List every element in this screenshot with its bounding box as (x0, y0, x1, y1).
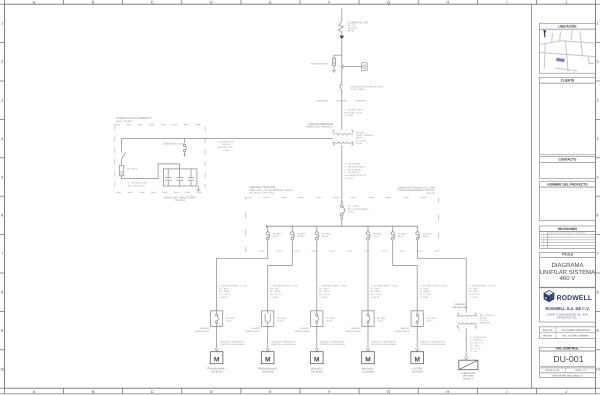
wire fuse to capacitor bank (122, 164, 180, 179)
svg-text:CABLES AL TABLERO DE: CABLES AL TABLERO DE (271, 340, 296, 343)
svg-text:BREAKER, 100 A: BREAKER, 100 A (163, 142, 184, 145)
svg-text:TABLERO: TABLERO (251, 327, 261, 330)
svg-text:3 - 500 KCM THW-LS: 3 - 500 KCM THW-LS (345, 165, 367, 168)
svg-text:6: 6 (597, 213, 599, 218)
svg-text:5: 5 (1, 174, 3, 179)
svg-text:DELTA - Y: DELTA - Y (356, 137, 367, 140)
svg-text:35 KA: 35 KA (373, 235, 379, 238)
wire branch to lightning arrester (334, 55, 342, 58)
title block section revisiones (539, 226, 595, 232)
svg-text:3 - 1/0 AWG, 15 KV: 3 - 1/0 AWG, 15 KV (128, 182, 148, 185)
svg-text:2: 2 (543, 237, 544, 240)
svg-text:L = 6 M: L = 6 M (470, 350, 477, 353)
svg-text:4: 4 (1, 136, 4, 141)
svg-text:CONTROL A LA MAQUINA: CONTROL A LA MAQUINA (420, 343, 446, 346)
feeder breaker CB-2 (291, 226, 293, 231)
svg-text:DV = 1.2 %: DV = 1.2 % (419, 293, 430, 296)
svg-text:J: J (565, 0, 567, 5)
svg-text:50 KVA: 50 KVA (480, 317, 488, 320)
main breaker 52-1 (341, 200, 343, 204)
svg-text:156.38 KW: 156.38 KW (311, 371, 324, 374)
svg-text:TIPO DE ARCHIVO: ARCH. A: TIPO DE ARCHIVO: ARCH. A (552, 374, 583, 377)
svg-text:220/127 V: 220/127 V (463, 378, 474, 381)
starter contactor symbol 2 (267, 311, 269, 313)
svg-text:UBICACIÓN: UBICACIÓN (558, 25, 577, 29)
flow arrow down (340, 36, 345, 40)
svg-text:ACOMETIDA CFE: ACOMETIDA CFE (348, 21, 369, 24)
svg-text:L = 50 M: L = 50 M (219, 296, 228, 299)
motor starter box 4 (362, 311, 374, 327)
svg-text:13,200 V: 13,200 V (348, 27, 358, 30)
svg-text:60 HZ: 60 HZ (356, 142, 363, 145)
svg-text:B: B (92, 389, 95, 394)
svg-text:HOJA: 1/1: HOJA: 1/1 (575, 369, 586, 372)
svg-text:L = 50 M: L = 50 M (319, 296, 328, 299)
wire feeder 5 jog (393, 240, 418, 311)
welder transformer T2 (458, 313, 459, 316)
title block divider line (530, 4, 532, 388)
svg-text:1 - 2/0 AWG (T): 1 - 2/0 AWG (T) (345, 171, 361, 174)
svg-text:M: M (214, 357, 220, 364)
logo box (539, 288, 595, 322)
feeder breaker CB-4 (367, 226, 369, 231)
svg-text:INT. 400 A: INT. 400 A (127, 167, 138, 170)
svg-text:NEMA 3R: NEMA 3R (480, 322, 490, 325)
svg-text:7: 7 (597, 251, 599, 256)
svg-text:REVISIONES: REVISIONES (558, 227, 578, 231)
svg-text:M: M (365, 357, 371, 364)
svg-text:3: 3 (543, 240, 544, 243)
svg-text:D: D (210, 389, 213, 394)
wire to motor 4 (367, 326, 369, 348)
svg-text:TABLERO: TABLERO (300, 327, 310, 330)
svg-text:1 - 250 KCM (N): 1 - 250 KCM (N) (345, 168, 361, 171)
svg-text:CABLES AL TABLERO DE: CABLES AL TABLERO DE (371, 340, 396, 343)
svg-text:RODWELL S.A. DE C.V.: RODWELL S.A. DE C.V. (545, 306, 589, 311)
svg-text:3 - 10 AWG, 5 KV: 3 - 10 AWG, 5 KV (217, 140, 235, 143)
wire secondary riser (341, 145, 343, 199)
svg-text:35 KA: 35 KA (298, 235, 304, 238)
wire subestacion to transformer (122, 138, 334, 140)
svg-text:D: D (210, 0, 213, 5)
svg-text:APODACA, N.L.: APODACA, N.L. (557, 316, 578, 320)
map location pin (543, 30, 546, 38)
svg-text:2: 2 (597, 59, 599, 64)
wire branch to utility meter (342, 66, 362, 68)
svg-text:9: 9 (597, 328, 599, 333)
svg-text:3: 3 (1, 98, 3, 103)
svg-text:CREACION DE DOCUMENTO - ABR/20: CREACION DE DOCUMENTO - ABR/2023 (549, 232, 585, 235)
svg-text:CU - 90 C: CU - 90 C (270, 287, 280, 290)
svg-text:TABLERO: TABLERO (400, 327, 410, 330)
wire main medium-voltage riser (341, 39, 343, 84)
feeder breaker CB-6 (417, 226, 419, 231)
svg-text:OFICINAS: OFICINAS (463, 375, 474, 378)
svg-text:3 - 8 AWG THWN + 1-10 (T): 3 - 8 AWG THWN + 1-10 (T) (469, 285, 497, 288)
scale and sheet row (539, 368, 595, 373)
wire to motor 2 (267, 326, 269, 348)
wire (121, 139, 123, 153)
svg-text:3 - 3/0 AWG THWN + 1-8 (T): 3 - 3/0 AWG THWN + 1-8 (T) (219, 285, 247, 288)
svg-text:G: G (387, 389, 390, 394)
svg-text:4: 4 (597, 136, 600, 141)
arrow to motor 3 (315, 348, 319, 351)
svg-text:E: E (269, 0, 272, 5)
svg-text:A: A (33, 389, 36, 394)
svg-text:DV = 1.2 %: DV = 1.2 % (319, 293, 330, 296)
svg-text:ALEJANDRO RODRIGUEZ: ALEJANDRO RODRIGUEZ (562, 329, 591, 332)
svg-text:6: 6 (1, 213, 3, 218)
starter breaker symbol 5 (416, 311, 418, 314)
svg-text:PROPIEDAD RODWELL: PROPIEDAD RODWELL (306, 126, 333, 129)
motor starter box 5 (411, 311, 423, 327)
svg-text:35 KA: 35 KA (322, 235, 328, 238)
svg-text:480 - 220/127 V: 480 - 220/127 V (480, 314, 496, 317)
capacitor cell at x=168.2 (167, 169, 169, 178)
svg-text:CU - 90 C: CU - 90 C (219, 287, 229, 290)
svg-text:H: H (446, 389, 449, 394)
svg-text:L = 8 M: L = 8 M (222, 149, 229, 152)
svg-text:ID = 196 A: ID = 196 A (319, 290, 330, 293)
motor M3 (311, 352, 324, 364)
starter breaker symbol 1 (216, 311, 218, 314)
arrow to motor 5 (415, 348, 419, 351)
svg-text:ARRANCADOR: ARRANCADOR (346, 330, 361, 333)
svg-text:3: 3 (597, 98, 599, 103)
svg-text:5: 5 (543, 246, 544, 249)
svg-text:150 KVAR: 150 KVAR (175, 199, 186, 202)
svg-text:15 KV - 400 A: 15 KV - 400 A (350, 88, 365, 91)
svg-text:CU - 90 C: CU - 90 C (469, 287, 479, 290)
motor M1 (210, 352, 223, 364)
wire welder secondary (465, 328, 467, 357)
svg-text:3F-350 A: 3F-350 A (298, 232, 307, 235)
svg-text:CUCHILLAS GRUPO 3F, 600 A: CUCHILLAS GRUPO 3F, 600 A (350, 85, 384, 88)
arrow to welder panel (464, 357, 468, 360)
svg-text:J: J (565, 389, 567, 394)
svg-text:1 - 8 AWG (T): 1 - 8 AWG (T) (470, 339, 483, 342)
svg-text:32 KA: 32 KA (427, 320, 433, 323)
feeder breaker CB-1 (267, 226, 269, 231)
svg-text:2: 2 (1, 59, 3, 64)
starter breaker symbol 4 (367, 311, 369, 314)
svg-text:ARRANCADOR: ARRANCADOR (195, 330, 210, 333)
svg-text:L = 10 M: L = 10 M (345, 177, 354, 180)
svg-text:CLIENTE: CLIENTE (561, 79, 575, 83)
svg-text:32 KA: 32 KA (326, 320, 332, 323)
svg-text:3 - 1/0 AWG, 15 KV: 3 - 1/0 AWG, 15 KV (344, 109, 364, 112)
svg-text:ID = 196 A: ID = 196 A (370, 290, 381, 293)
svg-text:CABLES AL TABLERO DE: CABLES AL TABLERO DE (220, 340, 245, 343)
svg-text:7: 7 (1, 251, 3, 256)
svg-text:RODWELL S.A. DE C.V.: RODWELL S.A. DE C.V. (556, 341, 579, 344)
svg-text:93.75 KW: 93.75 KW (412, 371, 423, 374)
svg-text:L = 42 M: L = 42 M (469, 296, 478, 299)
breaker CB-C for capacitors (184, 139, 186, 144)
svg-text:35 KA: 35 KA (273, 235, 279, 238)
ground for capacitor bank (197, 186, 199, 189)
title block section cliente (539, 77, 595, 83)
motor M5 (411, 352, 424, 364)
svg-text:32 KA: 32 KA (377, 320, 383, 323)
utility source zigzag symbol (339, 21, 344, 32)
arrow to motor 2 (266, 348, 270, 351)
main bus 480V (267, 225, 418, 227)
svg-text:CU - 90 C: CU - 90 C (470, 344, 480, 347)
title block section nombre del proyecto (539, 181, 595, 187)
svg-text:60 HZ: 60 HZ (348, 30, 355, 33)
svg-text:3 - 3/0 AWG THWN + 1-8 (T): 3 - 3/0 AWG THWN + 1-8 (T) (419, 285, 447, 288)
svg-text:TABLERO DE: TABLERO DE (461, 372, 476, 375)
feeder breaker CB-5 (392, 226, 394, 231)
arrow to motor 1 (215, 348, 219, 351)
svg-text:156.38 KW: 156.38 KW (262, 371, 275, 374)
svg-text:8: 8 (597, 290, 599, 295)
svg-text:CONTROL A LA MAQUINA: CONTROL A LA MAQUINA (271, 343, 297, 346)
svg-text:1: 1 (1, 21, 3, 26)
svg-text:ID = 196 A: ID = 196 A (419, 290, 430, 293)
svg-text:CABLES AL TABLERO DE: CABLES AL TABLERO DE (420, 340, 445, 343)
map highlighted lot (556, 58, 565, 62)
svg-text:10: 10 (595, 366, 600, 371)
capacitor cell at x=191.0 (190, 169, 192, 178)
wire incoming service drop (341, 8, 343, 21)
rodwell logo cube icon (544, 290, 554, 301)
svg-text:3F-350 A: 3F-350 A (322, 232, 331, 235)
svg-text:I: I (506, 389, 507, 394)
welder distribution box (459, 360, 478, 370)
svg-text:L = 12 M: L = 12 M (344, 114, 353, 117)
svg-text:INT. ELECTRONICO: INT. ELECTRONICO (348, 208, 369, 211)
transformer T1 (333, 130, 335, 134)
svg-text:DIAGRAMA: DIAGRAMA (551, 262, 583, 269)
motor starter box 3 (311, 311, 323, 327)
svg-text:F.D. 0.8: F.D. 0.8 (426, 192, 435, 195)
wire feeder 1 jog (217, 240, 268, 311)
svg-text:CU - 90 C: CU - 90 C (419, 287, 429, 290)
signature table (539, 327, 595, 339)
motor starter box 1 (211, 311, 223, 327)
title block section contacto (539, 156, 595, 162)
svg-text:EN TUB. 1 1/4: EN TUB. 1 1/4 (470, 342, 484, 345)
svg-text:0: 0 (543, 232, 544, 235)
svg-text:CONTROL A LA MAQUINA: CONTROL A LA MAQUINA (320, 343, 346, 346)
svg-text:BALA 750 KVA: BALA 750 KVA (117, 120, 133, 123)
capacitor cell at x=179.6 (179, 169, 181, 178)
svg-text:8: 8 (1, 290, 3, 295)
svg-text:DV = 1.1 %: DV = 1.1 % (470, 347, 481, 350)
CT bracket at meter tap (342, 65, 343, 69)
wire to motor 1 (216, 326, 218, 348)
revisions table (539, 232, 595, 249)
svg-text:750 KVA: 750 KVA (356, 131, 365, 134)
svg-text:ESCALA: N/A: ESCALA: N/A (545, 369, 560, 372)
wire (341, 32, 343, 36)
svg-text:35 KA: 35 KA (398, 235, 404, 238)
svg-text:3 - 3/0 AWG THWN + 1-8 (T): 3 - 3/0 AWG THWN + 1-8 (T) (370, 285, 398, 288)
svg-text:460 V: 460 V (560, 275, 576, 282)
svg-text:UNIFILAR SISTEMA: UNIFILAR SISTEMA (540, 269, 595, 276)
lightning arrester LA1 (333, 58, 336, 66)
svg-text:3F-350 A: 3F-350 A (273, 232, 282, 235)
svg-text:4: 4 (543, 243, 544, 246)
svg-text:DV = 0.9 %: DV = 0.9 % (469, 293, 480, 296)
svg-text:Z = 5.75 %: Z = 5.75 % (356, 139, 367, 142)
svg-text:35 KA: 35 KA (423, 235, 429, 238)
svg-text:2 - JUEGOS DE:: 2 - JUEGOS DE: (345, 163, 362, 166)
svg-text:L = 50 M: L = 50 M (419, 296, 428, 299)
switch blade (122, 153, 126, 159)
drawing title text (540, 262, 595, 282)
svg-text:B: B (92, 0, 95, 5)
starter breaker symbol 3 (316, 311, 318, 314)
svg-text:L = 50 M: L = 50 M (370, 296, 379, 299)
svg-text:CABLES AL TABLERO DE: CABLES AL TABLERO DE (320, 340, 345, 343)
disconnect switch cuchillas (341, 84, 342, 85)
tablero principal dashed enclosure (246, 198, 439, 252)
motor M4 (362, 352, 375, 364)
title block section ubicacion (539, 23, 595, 29)
svg-text:3 - 2 AWG THWN: 3 - 2 AWG THWN (470, 336, 487, 339)
svg-text:5: 5 (597, 174, 599, 179)
svg-text:1: 1 (543, 235, 544, 238)
svg-text:13200 - 460/265 V: 13200 - 460/265 V (356, 134, 375, 137)
svg-text:H: H (446, 0, 449, 5)
svg-text:DV = 1.2 %: DV = 1.2 % (370, 293, 381, 296)
svg-text:CU - 90 C: CU - 90 C (319, 287, 329, 290)
svg-text:ID = 44 A: ID = 44 A (469, 290, 479, 293)
svg-text:M: M (314, 357, 320, 364)
svg-text:214.36 KW: 214.36 KW (362, 371, 375, 374)
file type row (539, 373, 595, 378)
svg-text:EN CHAROLA 30 CM: EN CHAROLA 30 CM (345, 174, 366, 177)
svg-text:9: 9 (1, 328, 3, 333)
property limit dashed line (317, 100, 371, 102)
svg-text:CONTROL A LA MAQUINA: CONTROL A LA MAQUINA (371, 343, 397, 346)
wire feeder 2 jog (268, 240, 293, 311)
svg-text:G: G (387, 0, 390, 5)
wire (341, 220, 343, 226)
svg-text:3 - 3/0 AWG THWN + 1-8 (T): 3 - 3/0 AWG THWN + 1-8 (T) (270, 285, 298, 288)
svg-text:TABLERO: TABLERO (351, 327, 361, 330)
svg-text:DV = 1.2 %: DV = 1.2 % (219, 293, 230, 296)
wire feeder 3 (316, 240, 318, 311)
svg-text:DU-001: DU-001 (553, 354, 583, 364)
svg-text:TABLERO: TABLERO (200, 327, 210, 330)
svg-text:3F-150 A: 3F-150 A (423, 232, 432, 235)
svg-text:RODWELL: RODWELL (557, 295, 593, 302)
svg-text:3F - 4H: 3F - 4H (348, 24, 356, 27)
svg-text:DV = 1.2 %: DV = 1.2 % (270, 293, 281, 296)
svg-text:3F-250 A: 3F-250 A (398, 232, 407, 235)
capacitor bank box (163, 169, 197, 186)
svg-text:F: F (328, 389, 331, 394)
svg-text:M: M (414, 357, 420, 364)
svg-text:ARRANCADOR: ARRANCADOR (246, 330, 261, 333)
svg-text:C: C (151, 389, 154, 394)
svg-text:ID = 196 A: ID = 196 A (270, 290, 281, 293)
svg-text:EN 1 TUB. 4 PLG: EN 1 TUB. 4 PLG (128, 184, 146, 187)
meter KWH box (362, 63, 368, 71)
title block section no control (539, 347, 595, 351)
svg-text:THW-LS: THW-LS (221, 143, 230, 146)
wire (341, 91, 343, 129)
motor M2 (261, 352, 274, 364)
svg-text:3F-500 A: 3F-500 A (373, 232, 382, 235)
subestacion dashed enclosure (115, 125, 205, 192)
ubicacion map box (539, 29, 595, 73)
wire feeder 4 (367, 240, 369, 311)
svg-text:Z = 3 %: Z = 3 % (480, 319, 488, 322)
svg-text:32 KA: 32 KA (277, 320, 283, 323)
svg-text:ING. VICTOR CORDERO: ING. VICTOR CORDERO (563, 335, 590, 338)
svg-text:3 - 3/0 AWG THWN + 1-8 (T): 3 - 3/0 AWG THWN + 1-8 (T) (319, 285, 347, 288)
svg-text:NO. CONTROL: NO. CONTROL (556, 346, 578, 350)
svg-text:L = 50 M: L = 50 M (270, 296, 279, 299)
svg-text:ID = 196 A: ID = 196 A (219, 290, 230, 293)
svg-text:M: M (265, 357, 271, 364)
svg-text:3F - 1600 A: 3F - 1600 A (348, 205, 360, 208)
svg-text:ARRANCADOR: ARRANCADOR (395, 330, 410, 333)
svg-text:INT: 65 KA, ZAP. 25 KA: INT: 65 KA, ZAP. 25 KA (249, 192, 274, 195)
svg-text:REVISA: REVISA (543, 335, 552, 338)
svg-text:EN TUB. 2 PLG: EN TUB. 2 PLG (218, 146, 234, 149)
svg-text:156.38 KW: 156.38 KW (211, 371, 224, 374)
motor starter box 2 (262, 311, 274, 327)
svg-text:CONTACTO: CONTACTO (559, 158, 577, 162)
wire feeder 6 jog to welder (418, 240, 467, 313)
map streets (540, 31, 595, 73)
wire to motor 3 (316, 326, 318, 348)
svg-text:ARRANCADOR: ARRANCADOR (295, 330, 310, 333)
svg-text:CONTROL A LA MAQUINA: CONTROL A LA MAQUINA (220, 343, 246, 346)
wire to motor 5 (416, 326, 418, 348)
svg-text:32 KA: 32 KA (226, 320, 232, 323)
svg-text:1: 1 (597, 21, 599, 26)
svg-text:SOLDADURA: SOLDADURA (452, 306, 467, 309)
svg-text:C: C (151, 0, 154, 5)
svg-text:E: E (269, 389, 272, 394)
svg-text:I: I (506, 0, 507, 5)
feeder breaker CB-3 (316, 226, 318, 231)
arrow to motor 4 (366, 348, 370, 351)
fuse F1 (120, 165, 124, 175)
svg-text:TITULO: TITULO (562, 253, 574, 257)
svg-text:A: A (33, 0, 36, 5)
svg-text:APARTARRAYOS: APARTARRAYOS (311, 62, 329, 65)
svg-text:EN 1 TUB. 4 PLG: EN 1 TUB. 4 PLG (344, 111, 362, 114)
svg-text:REALIZÓ: REALIZÓ (543, 329, 553, 332)
svg-text:BANCO DE CAPACITORES: BANCO DE CAPACITORES (164, 196, 196, 199)
svg-text:CU - 90 C: CU - 90 C (370, 287, 380, 290)
page bottom edge line (0, 393, 600, 395)
svg-text:65 KA: 65 KA (348, 211, 354, 214)
ground for arrester (332, 69, 336, 71)
svg-text:NOMBRE DEL PROYECTO: NOMBRE DEL PROYECTO (547, 183, 588, 187)
title block section titulo (539, 253, 595, 258)
